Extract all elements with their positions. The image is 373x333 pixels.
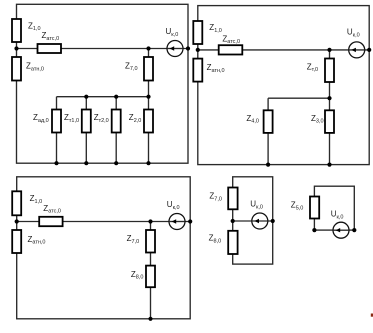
stray red mark at right edge (371, 314, 373, 317)
wire frame box 2 (198, 6, 369, 165)
resistor Z8,0 c4 (228, 231, 237, 254)
wire stub column 3 (115, 97, 117, 164)
node dot star point 3 (15, 219, 19, 223)
node dot star point 2 (196, 48, 200, 52)
wire main node line 3 (17, 221, 191, 223)
resistor Zatc,0 c2 (219, 45, 243, 54)
resistor Zatn,0 c2 (193, 59, 202, 82)
node dot bus j4 (146, 95, 150, 99)
wire Z4 column (267, 98, 269, 164)
node dot bottom Z4 (266, 163, 270, 167)
node dot bottom Z3 (327, 163, 331, 167)
wire frame box 4 (233, 177, 273, 264)
arrow of source 3 (172, 219, 177, 223)
resistor Z7,0 c4 (228, 188, 237, 210)
node dot Z4 junction (327, 96, 331, 100)
resistor Z3,0 c2 (325, 110, 334, 133)
node dot left corner 5 (312, 228, 316, 232)
resistor Z8,0 c3 (146, 266, 155, 288)
resistor Z2,0 (144, 110, 153, 133)
resistor Zatc,0 (38, 44, 62, 53)
node dot bus j3 (114, 95, 118, 99)
wire frame box 5 (314, 186, 354, 230)
arrow of source 1 (170, 46, 175, 50)
wire main horizontal node line (17, 48, 189, 50)
node dot right corner 5 (352, 228, 356, 232)
resistor Z4,0 c2 (264, 110, 273, 133)
resistor Z7,0 (144, 57, 153, 81)
wire Z4 branch horizontal (268, 97, 329, 99)
node dot bottom j1 (54, 161, 58, 165)
node dot left star point 1 (14, 46, 18, 50)
node dot bottom c3 (148, 317, 152, 321)
node dot right edge 3 (188, 219, 192, 223)
wire Zt column (329, 50, 331, 165)
node dot Zt top (327, 48, 331, 52)
resistor Zt,0 c2 (325, 59, 334, 83)
resistor Zatn,0 c3 (12, 230, 21, 253)
node dot right edge 2 (367, 48, 371, 52)
node dot Z7 top (146, 46, 150, 50)
resistor Z1,0 (12, 19, 21, 42)
node dot bus j2 (84, 95, 88, 99)
arrow of source 5 (336, 228, 341, 232)
wire Z7/Z8 column (150, 222, 152, 319)
source Uk,0 circle 3 (169, 214, 185, 230)
node dot Z7 top c3 (148, 219, 152, 223)
resistor Z1,0 c2 (193, 21, 202, 44)
wire main node line 2 (198, 49, 369, 51)
wire Z7 column (148, 49, 150, 164)
node dot right edge 4 (271, 219, 275, 223)
resistor Z7,0 c3 (146, 230, 155, 253)
arrow of source 4 (254, 219, 259, 223)
node dot bottom j4 (146, 161, 150, 165)
resistor Zt1,0 (82, 110, 91, 133)
resistor Zatn,0 (12, 57, 21, 81)
source Uk,0 circle 4 (252, 213, 268, 229)
resistor Z5,0 c5 (310, 197, 319, 219)
arrow of source 2 (351, 48, 356, 52)
resistor Zatc,0 c3 (39, 217, 62, 226)
wire node line 4 (233, 220, 273, 222)
node dot bottom j3 (114, 161, 118, 165)
wire stub column 2 (85, 97, 87, 164)
resistor Zt2,0 (112, 110, 121, 133)
node dot mid point 4 (231, 219, 235, 223)
wire frame box 1 (17, 4, 189, 163)
source Uk,0 circle 5 (333, 222, 349, 238)
wire parallel bus (57, 96, 149, 98)
source Uk,0 circle 1 (167, 41, 183, 57)
resistor Zad,0 (52, 110, 61, 133)
wire frame box 3 (17, 177, 191, 319)
resistor Z1,0 c3 (12, 191, 21, 215)
node dot bottom j2 (84, 161, 88, 165)
wire stub column 1 (56, 97, 58, 164)
source Uk,0 circle 2 (349, 42, 365, 58)
node dot right edge 1 (186, 46, 190, 50)
